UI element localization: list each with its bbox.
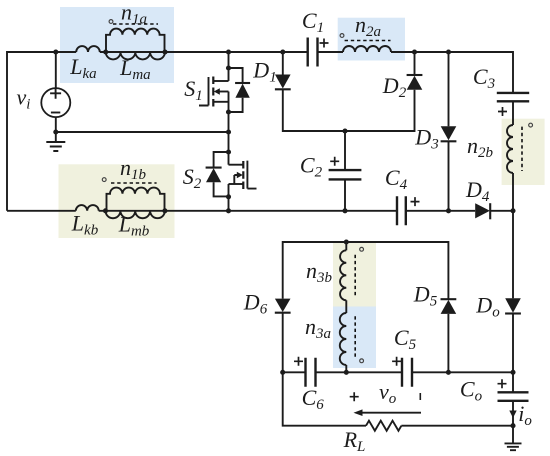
wire D2 cathode to top rail [414, 52, 416, 75]
diode D2 [407, 76, 423, 90]
node C6 left junction [280, 370, 285, 375]
wire S2 source to bottom rail [228, 184, 230, 211]
node n3a bottom junction [344, 370, 349, 375]
node D3-D4 junction [446, 208, 451, 213]
capacitor C1 plates [308, 38, 318, 67]
wire output block top with D6 anode and D5 cathode leads [283, 242, 449, 299]
wire D1 top lead [282, 52, 284, 75]
wire D6 cathode lead [282, 312, 284, 372]
capacitor C3 plus [498, 107, 507, 116]
transistor S1 channel dashes [212, 77, 214, 107]
diode D3 [441, 126, 457, 140]
wire top rail to right corner [391, 52, 513, 93]
wire n3b top lead [345, 242, 347, 250]
diode D6 [275, 299, 291, 312]
transistor S1 gate [199, 77, 209, 106]
capacitor C3 plates [497, 93, 529, 101]
winding highlight box n2b [502, 119, 545, 185]
wire n2b to Do [512, 173, 514, 298]
wire top rail middle segment [100, 51, 308, 53]
node S1-S2 midpoint [226, 129, 231, 134]
wire D4 cathode to output node [490, 210, 513, 212]
wire D3 anode lead [448, 52, 450, 126]
polarity dot n2b [529, 123, 533, 127]
svg-text:vo: vo [379, 379, 397, 407]
wire vi bottom lead [55, 117, 57, 132]
wire S2 column from mid rail to drain [228, 132, 230, 165]
transistor S2 channel dashes [242, 161, 244, 189]
voltage source vi minus sign [51, 112, 60, 114]
inductor n2b winding [507, 125, 513, 173]
diode D1 [275, 75, 291, 89]
svg-text:C1: C1 [302, 8, 324, 36]
svg-text:C2: C2 [300, 153, 323, 181]
transistor S2 source lead [229, 183, 244, 185]
capacitor C6 plus [294, 357, 303, 366]
wire D1 cathode to C2 loop and up to D2 [283, 89, 415, 131]
diode D4 [475, 203, 490, 218]
transistor S2 body arrow [234, 175, 238, 184]
inductor Lka [76, 46, 100, 52]
transistor S1 body arrow [219, 91, 229, 93]
voltage vo reference arrow [360, 412, 421, 414]
svg-text:Co: Co [460, 377, 483, 405]
voltage source vi plus sign [50, 88, 61, 99]
svg-text:C5: C5 [394, 325, 417, 353]
svg-text:n1b: n1b [120, 155, 147, 183]
node S2 diode top junction [226, 149, 231, 154]
capacitor C5 plates [402, 358, 412, 387]
wire bottom rail left segment [7, 210, 76, 212]
inductor n3b winding [340, 250, 346, 300]
node D2 cathode on top rail [412, 49, 417, 54]
node D1 anode on top rail [280, 49, 285, 54]
wire S1 column from top rail to drain [228, 52, 230, 81]
capacitor C1 plus [320, 39, 329, 48]
wire n3a bottom lead [345, 365, 347, 372]
svg-text:vi: vi [17, 85, 31, 113]
wire C2 top lead [344, 131, 346, 170]
svg-text:S2: S2 [183, 164, 202, 192]
wire left column down to RL return [283, 372, 366, 425]
svg-text:io: io [518, 401, 532, 429]
svg-text:n1a: n1a [121, 0, 147, 28]
ground bottom right [505, 443, 522, 450]
core dashed line n2b [521, 127, 523, 171]
svg-text:n2b: n2b [467, 133, 494, 161]
capacitor Co plus [498, 379, 507, 388]
svg-text:n2a: n2a [355, 12, 381, 40]
node S2 diode bottom junction [226, 194, 231, 199]
diode Do [505, 298, 521, 312]
wire n3b to n3a [345, 300, 347, 313]
transistor S2 gate bar [247, 161, 256, 189]
current io arrowhead [509, 411, 516, 419]
core dashed line n2a [345, 40, 391, 42]
winding highlight box n1a [60, 7, 174, 83]
voltage vo minus tick [419, 393, 421, 400]
inductor Lkb [76, 205, 99, 211]
svg-text:D4: D4 [465, 177, 490, 205]
polarity dot n3a [360, 359, 364, 363]
svg-text:D1: D1 [252, 58, 276, 86]
node D3 anode on top rail [446, 49, 451, 54]
transformer winding n1a loop [106, 29, 165, 52]
wire D3 cathode lead [448, 141, 450, 211]
capacitor C4 plates [397, 196, 406, 225]
diode S1 body diode [229, 68, 243, 112]
wire C3 to n2b [512, 101, 514, 125]
node S1 diode bottom junction [226, 109, 231, 114]
capacitor C2 plates [329, 170, 362, 179]
wire output bottom rail left [283, 371, 306, 373]
capacitor C2 plus [330, 157, 339, 166]
svg-text:D5: D5 [413, 282, 438, 310]
voltage source vi circle [41, 88, 70, 117]
wire Do cathode to Co [512, 314, 514, 393]
wire output bottom rail between C6 and C5 [316, 371, 403, 373]
transistor S1 source lead [213, 101, 228, 103]
svg-text:D2: D2 [382, 73, 407, 101]
wire ground stub below vi [55, 132, 57, 142]
svg-text:S1: S1 [184, 76, 203, 104]
svg-text:C4: C4 [385, 165, 408, 193]
node output Co top junction [510, 370, 515, 375]
voltage vo plus sign [350, 392, 359, 401]
inductor n2a winding [343, 46, 391, 52]
wire C2 bottom lead [344, 179, 346, 210]
svg-text:RL: RL [343, 427, 366, 455]
core dashed line n3b [354, 255, 356, 296]
wire D5 anode lead [447, 314, 449, 372]
winding highlight box n2a [338, 18, 405, 61]
node vi top junction [53, 49, 58, 54]
node C2 bottom on bottom rail [342, 208, 347, 213]
svg-text:C6: C6 [302, 385, 325, 413]
wire bottom rail middle segment [99, 210, 397, 212]
wire mid rail from vi ground to S1-S2 midpoint [56, 131, 229, 133]
core dashed line n1a [113, 23, 158, 25]
svg-text:D3: D3 [414, 125, 438, 153]
diode D5 [441, 300, 457, 314]
node Lkb-Lmb left junction [103, 208, 108, 213]
inductor n3a winding [340, 313, 346, 365]
polarity dot n2a [340, 34, 344, 38]
polarity dot n3b [360, 247, 364, 251]
inductor Lmb arcs [106, 211, 165, 218]
polarity dot n1b [102, 178, 106, 182]
capacitor C4 plus [411, 197, 420, 206]
node D4 output junction [510, 208, 515, 213]
node Lka-Lma left junction [103, 49, 108, 54]
inductor Lma arcs [106, 52, 165, 59]
capacitor Co plates [498, 392, 529, 401]
resistor RL zigzag [366, 421, 401, 431]
wire S1 body tie to mid rail [228, 92, 230, 133]
node S2 source on bottom rail [226, 208, 231, 213]
ground below vi [46, 142, 65, 151]
node ground return junction [510, 423, 515, 428]
winding highlight box n3a [333, 307, 376, 369]
winding highlight box n3b [333, 243, 376, 307]
core dashed line n1b [111, 182, 157, 184]
node S1 drain on top rail [226, 49, 231, 54]
node S1 diode top junction [226, 65, 231, 70]
node C2 top junction [342, 128, 347, 133]
transistor S2 drain lead [229, 164, 244, 166]
node Lmb right junction [162, 208, 167, 213]
svg-text:D6: D6 [243, 290, 268, 318]
wire bottom rail right of C4 [406, 210, 475, 212]
wire vi top lead [55, 52, 57, 88]
svg-text:n3a: n3a [305, 314, 331, 342]
core dashed line n3a [354, 316, 356, 357]
node vi ground junction [53, 129, 58, 134]
wire top rail left segment and left edge [7, 52, 76, 211]
diode S2 body diode [214, 152, 229, 196]
node D5 anode junction [446, 370, 451, 375]
transistor S1 drain lead [213, 80, 228, 82]
winding highlight box n1b [59, 164, 175, 238]
wire top rail right of C1 [318, 51, 344, 53]
wire RL return right [401, 425, 513, 427]
polarity dot n1a [109, 20, 113, 24]
wire Co to ground [512, 401, 514, 444]
svg-text:n3b: n3b [306, 258, 333, 286]
wire output bottom rail right [412, 371, 513, 373]
capacitor C6 plates [306, 358, 316, 387]
transformer winding n1b loop [107, 188, 165, 211]
node n3b top junction [344, 239, 349, 244]
capacitor C5 plus [392, 357, 401, 366]
node Lma right junction [162, 49, 167, 54]
svg-text:C3: C3 [473, 64, 495, 92]
svg-text:Do: Do [475, 293, 500, 321]
